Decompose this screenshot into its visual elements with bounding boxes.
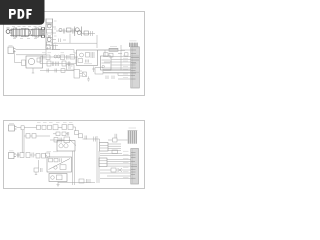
- label row bottom: [13, 37, 37, 39]
- capacitor C9: [91, 52, 94, 58]
- wire: [16, 154, 20, 156]
- resistor R28: [64, 137, 70, 143]
- controller U3: [101, 56, 112, 70]
- resistor R43: [57, 175, 63, 180]
- wire: [98, 50, 111, 56]
- inductor L5: [53, 125, 58, 130]
- resistor R27: [54, 138, 58, 143]
- wire: [118, 73, 131, 79]
- wire (bulk rail left): [46, 19, 53, 51]
- connector CN3: [74, 70, 80, 79]
- bridge rectifier BR1: [41, 28, 44, 38]
- capacitor C26: [87, 179, 91, 183]
- page 2 sheet border: [4, 121, 145, 189]
- wire (bottom run p1): [40, 70, 74, 72]
- label harness p2: [123, 151, 129, 177]
- label J1: [130, 40, 137, 42]
- wire (diagonal): [70, 140, 77, 146]
- diode D2: [46, 45, 50, 49]
- capacitor C14: [112, 76, 114, 80]
- node A stubs: [53, 27, 61, 50]
- wire: [100, 170, 131, 179]
- amplifier module U6: [47, 157, 72, 172]
- connector block CN6 body: [131, 149, 139, 185]
- transformer T1: [75, 28, 79, 32]
- wire (B2 out): [107, 160, 131, 167]
- resistor R7: [47, 61, 51, 66]
- capacitor C21: [94, 137, 96, 142]
- pin stubs CN6: [131, 152, 137, 178]
- resistor R42: [46, 153, 50, 157]
- diode D7: [47, 24, 53, 25]
- label U1: [84, 63, 92, 65]
- regulator module U1: [77, 50, 98, 66]
- connector B1: [100, 143, 109, 152]
- capacitor CY1: [17, 29, 19, 37]
- resistor R31: [26, 153, 30, 158]
- wire (feedback long): [16, 50, 77, 54]
- resistor R26: [32, 134, 36, 139]
- wire (mains rails): [10, 30, 45, 36]
- diode D1: [47, 35, 52, 38]
- capacitor C7: [67, 55, 69, 60]
- connector CN5: [9, 153, 15, 159]
- label CN1: [9, 45, 13, 47]
- capacitor C4: [91, 31, 93, 36]
- resistor R10: [78, 59, 83, 63]
- resistor R30: [20, 153, 24, 158]
- resistor R1: [47, 30, 53, 34]
- label row p2: [37, 122, 73, 124]
- wire: [100, 154, 131, 156]
- diode D3: [54, 55, 57, 58]
- resistor R5: [46, 55, 50, 60]
- wire: [73, 127, 76, 129]
- label K2: [67, 62, 72, 64]
- connector header J3 (striped): [128, 131, 137, 144]
- label harness p1: [123, 55, 128, 77]
- transformer T2: [75, 131, 79, 135]
- wire: [25, 127, 37, 129]
- line filter L1: [14, 28, 17, 37]
- transistor Q3: [59, 28, 62, 31]
- triac symbol: [49, 159, 71, 170]
- PDF badge: [0, 0, 45, 25]
- resistor R23: [62, 125, 67, 130]
- capacitor C20: [85, 136, 87, 140]
- resistor R20: [37, 125, 41, 129]
- varistor RV1: [29, 29, 32, 36]
- thermistor TH1: [22, 60, 26, 66]
- connector CN4: [9, 125, 15, 131]
- capacitor C13: [106, 76, 108, 80]
- wire: [53, 133, 68, 135]
- capacitor C1 (bulk): [46, 19, 53, 23]
- wire: [58, 182, 95, 184]
- wire: [58, 126, 62, 128]
- resistor R12: [109, 53, 113, 57]
- wire (B1 out): [108, 144, 121, 151]
- wire: [98, 50, 125, 54]
- resistor R36: [112, 150, 118, 154]
- relay K1: [21, 126, 24, 130]
- label U6: [47, 151, 58, 153]
- resistor R8: [62, 61, 66, 66]
- capacitor C18: [69, 62, 70, 67]
- wire: [24, 135, 50, 137]
- wire: [16, 50, 46, 55]
- resistor R34: [60, 165, 66, 170]
- fan motor M1: [26, 56, 43, 68]
- inductor L4: [70, 55, 75, 60]
- IC U4: [95, 68, 103, 75]
- wire (vertical pair): [22, 130, 24, 153]
- snubber marks: [59, 39, 67, 43]
- wire: [15, 50, 22, 63]
- output box U7: [49, 174, 67, 182]
- resistor R21: [42, 125, 46, 129]
- label ladder: [54, 21, 57, 43]
- capacitor C15: [92, 67, 95, 73]
- wire: [17, 127, 22, 129]
- label CN4: [9, 122, 14, 124]
- cluster R35: [34, 168, 39, 172]
- diode D5: [125, 53, 129, 57]
- capacitor CY3: [39, 29, 40, 37]
- wire: [76, 129, 100, 143]
- capacitor C11: [47, 69, 49, 73]
- transistor Q5: [64, 144, 68, 148]
- PDF letters: [9, 9, 32, 19]
- resistor R3: [67, 28, 72, 32]
- resistor R29: [113, 138, 118, 142]
- resistor R41: [54, 158, 58, 162]
- resistor R11: [104, 53, 109, 57]
- ground: [57, 184, 60, 187]
- wire (secondary top): [40, 57, 78, 64]
- label J2: [110, 45, 117, 47]
- fuse F1: [25, 29, 28, 37]
- connector B2: [99, 158, 107, 167]
- resistor R4: [84, 31, 89, 35]
- driver box U5: [57, 141, 75, 152]
- header J2 small: [109, 48, 118, 51]
- wire (secondary lower): [40, 63, 76, 65]
- row y=136 resistor R25: [26, 134, 30, 139]
- relay K2: [67, 65, 75, 71]
- opto U2: [80, 53, 84, 57]
- capacitor CX2: [33, 29, 34, 37]
- resistor R40: [49, 158, 53, 162]
- wire (primary top): [56, 31, 95, 34]
- capacitor C8: [56, 62, 59, 67]
- line filter L2: [21, 29, 25, 37]
- capacitor C27: [60, 158, 61, 162]
- resistor R22: [48, 125, 52, 129]
- resistor R13: [61, 69, 65, 73]
- diode D6: [118, 168, 123, 172]
- capacitor C2: [48, 47, 51, 50]
- line filter L3: [35, 28, 39, 37]
- pin stubs CN2: [131, 50, 139, 79]
- diode D4: [57, 55, 60, 58]
- transistor Q1: [47, 24, 51, 28]
- wire (row y=140): [50, 139, 64, 141]
- capacitor C16: [64, 29, 65, 34]
- capacitor C29: [17, 153, 18, 158]
- resistor R45: [62, 132, 66, 136]
- transistor Q6: [54, 166, 57, 169]
- resistor R9: [86, 53, 90, 58]
- resistor R44: [56, 132, 60, 136]
- resistor R32: [36, 154, 40, 159]
- capacitor CX1: [12, 29, 13, 37]
- wire (primary lower): [53, 34, 97, 49]
- capacitor C25: [41, 168, 43, 172]
- transistor Q4: [59, 144, 63, 148]
- resistor R33: [42, 154, 46, 159]
- connector CN1: [8, 47, 14, 54]
- wire: [35, 160, 39, 175]
- wire: [73, 151, 75, 185]
- ground: [87, 77, 90, 82]
- resistor R14: [47, 36, 53, 38]
- connector block CN2 body: [131, 47, 140, 88]
- capacitor C10: [86, 60, 89, 63]
- resistor R6: [61, 55, 65, 60]
- potentiometer VR1: [83, 72, 87, 77]
- wire (harness p1): [104, 50, 132, 73]
- capacitor C28: [68, 132, 69, 136]
- wire (bus vertical): [120, 45, 122, 70]
- resistor R2: [47, 42, 53, 46]
- transistor Q2: [47, 38, 51, 42]
- cluster R38: [79, 179, 84, 183]
- capacitor C23: [115, 134, 117, 138]
- capacitor C5: [54, 45, 56, 50]
- resistor R37: [111, 168, 116, 172]
- wire: [30, 154, 47, 157]
- capacitor C3: [73, 29, 75, 34]
- capacitor C24: [32, 153, 34, 158]
- label CN5: [9, 150, 14, 152]
- capacitor C12: [55, 69, 57, 73]
- wire (fan pin): [32, 68, 34, 73]
- AC plug P1: [6, 30, 10, 34]
- label secondary: [42, 52, 64, 54]
- resistor R24: [68, 125, 73, 130]
- wire (vertical bus right): [97, 136, 99, 183]
- wire: [108, 139, 128, 141]
- label J3: [129, 127, 137, 129]
- transistor Q7: [51, 176, 55, 180]
- connector header J1 (striped): [129, 43, 138, 47]
- capacitor C6: [43, 55, 45, 60]
- label row top: [12, 26, 42, 28]
- capacitor C22: [60, 138, 62, 143]
- capacitor C17: [53, 62, 54, 67]
- wire: [103, 70, 131, 73]
- page 1 sheet border: [4, 12, 145, 96]
- capacitor CY2: [19, 29, 21, 37]
